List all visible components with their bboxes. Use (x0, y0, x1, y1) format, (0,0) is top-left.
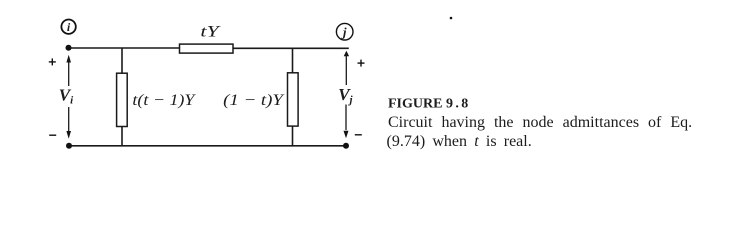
svg-text:Circuit having the node admitt: Circuit having the node admittances of E… (388, 114, 692, 131)
svg-text:Vj: Vj (338, 85, 353, 106)
svg-text:(9.74) when t is real.: (9.74) when t is real. (387, 133, 532, 150)
svg-text:(1 − t)Y: (1 − t)Y (223, 92, 285, 109)
svg-text:FIGURE 9.8: FIGURE 9.8 (388, 97, 471, 112)
svg-text:tY: tY (200, 24, 221, 41)
svg-text:Vi: Vi (59, 86, 74, 107)
svg-text:t(t − 1)Y: t(t − 1)Y (132, 92, 196, 109)
